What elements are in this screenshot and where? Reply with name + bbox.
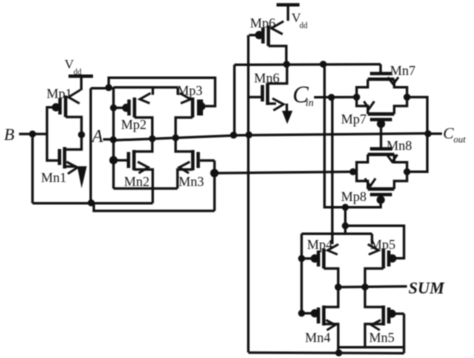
wire Cinv output: [234, 63, 380, 66]
svg-text:Mn8: Mn8: [387, 138, 413, 153]
wire twin2 (Cin) down: [331, 97, 334, 233]
transistor Mn1: [47, 135, 82, 174]
transistor Mn4: [302, 287, 339, 353]
node Mp6 gate blob: [255, 31, 263, 39]
transistor Mp5: [365, 234, 389, 287]
node twin1 corner junction: [342, 204, 349, 211]
wire Cinv left drop: [233, 65, 236, 135]
transistor Mp3: [176, 87, 202, 137]
transistor Mp4: [302, 234, 339, 287]
wire XOR rail (middle): [114, 133, 429, 140]
wire gate line Cin (Mp6-Mn6 down to bottom): [247, 35, 250, 352]
wire W2 step: [91, 203, 214, 211]
svg-text:C: C: [443, 126, 454, 143]
label Mp6: [250, 16, 276, 31]
label Mn6: [254, 71, 280, 86]
wire B down to bottom wire: [31, 134, 34, 203]
node SUM Mp4-Mn4: [335, 284, 342, 291]
label Mn5: [369, 330, 395, 345]
wire TG8 right to Cout: [407, 134, 427, 172]
node rail1 junction: [342, 222, 349, 229]
node rail Mp2-Mn2: [149, 135, 156, 142]
label Mn7: [390, 63, 416, 78]
wire bottom rail Cin: [248, 351, 404, 354]
wire A vertical: [112, 88, 115, 188]
arrow Mn6 source (big): [282, 104, 293, 124]
label Mn4: [305, 330, 331, 345]
transistor Mn7 (pass): [357, 64, 407, 97]
svg-text:Mn4: Mn4: [305, 330, 331, 345]
wire Mp8 gate lead: [345, 195, 380, 208]
node TG7 right: [404, 94, 411, 101]
transistor Mp2: [114, 87, 153, 138]
wire Cout stub: [428, 132, 442, 135]
node B junction: [29, 131, 36, 138]
wire Mp7 gate stem to Mn8: [380, 120, 383, 150]
wire Bnet drop left of A: [89, 88, 92, 203]
wire TG7 right to Cout: [407, 97, 427, 134]
node Mn2 gate on A line: [109, 156, 117, 164]
label Vdd left: [65, 57, 82, 77]
node TG7 left: [353, 94, 360, 101]
node Mp8 gate blob: [377, 196, 385, 204]
wire Vb vertical: [344, 207, 347, 234]
node Cin junction twin2: [328, 94, 335, 101]
svg-text:Mp7: Mp7: [341, 112, 367, 127]
node Mn4 gate blob: [311, 309, 319, 317]
node Mp3 gate blob: [197, 102, 205, 110]
svg-text:Mp2: Mp2: [121, 117, 147, 132]
transistor Mn8 (pass): [357, 149, 407, 172]
transistor Mn3: [176, 138, 215, 189]
input label B: [4, 125, 15, 144]
input label A: [91, 126, 104, 146]
svg-text:Mp3: Mp3: [177, 83, 203, 98]
node inverter2 output: [283, 61, 290, 68]
node Mp5 gate blob: [388, 254, 396, 262]
wire XNOR out to TG8: [214, 172, 353, 173]
node inverter1 output: [78, 131, 85, 138]
label Mn8: [387, 138, 413, 153]
wire rail1 Mp5 gate: [345, 226, 404, 258]
node Mn5 gate blob: [388, 310, 396, 318]
node Mp1 gate: [52, 103, 60, 111]
node Mp4 gate blob: [311, 254, 319, 262]
label Mp7: [341, 112, 367, 127]
node TG8 left: [350, 168, 357, 175]
transistor Mn2: [114, 139, 153, 174]
label Mn2: [124, 174, 150, 189]
node Mn4 gate tap: [298, 310, 305, 317]
wire twin1 (Cinv) down: [325, 64, 346, 207]
label Vdd top: [292, 10, 308, 30]
label Mn1: [41, 170, 67, 185]
svg-text:dd: dd: [74, 68, 82, 77]
wire W2 riser to Mn3 gate: [213, 161, 216, 211]
transistor Mp6: [249, 21, 286, 64]
transistor Mn5: [365, 287, 404, 347]
node Mp2 gate on A line: [110, 104, 117, 111]
label Mp5: [370, 237, 396, 252]
node A junction: [110, 136, 117, 143]
svg-text:out: out: [454, 136, 467, 146]
power Vdd top: [277, 5, 300, 21]
node bottom rail junction: [335, 349, 342, 356]
svg-text:SUM: SUM: [409, 279, 446, 298]
svg-text:A: A: [91, 126, 104, 146]
wire B input: [19, 133, 47, 136]
node Mp4 gate tap: [298, 255, 305, 262]
wire SUM rail: [338, 285, 407, 288]
output label Cout: [443, 126, 466, 146]
node SUM Mp5-Mn5: [362, 284, 369, 291]
wire left gate column: [300, 234, 303, 313]
transistor Mp1: [47, 90, 82, 135]
wire rail2 gates Cin: [302, 233, 372, 236]
output label SUM: [409, 279, 446, 298]
node rail crossing C2: [245, 131, 252, 138]
transistor Mp7 (pass): [357, 97, 407, 120]
node Mp7 gate blob: [377, 120, 385, 128]
node Cout junction: [425, 130, 432, 137]
svg-text:Mn7: Mn7: [390, 63, 416, 78]
svg-text:Mn2: Mn2: [124, 174, 150, 189]
svg-text:Mp8: Mp8: [341, 189, 367, 204]
node bottom B junction: [88, 199, 95, 206]
label Mp1: [47, 86, 73, 101]
wire Cin stub to TG7: [314, 96, 357, 99]
wire A stub: [103, 138, 114, 141]
arrow Mn1 source (big): [77, 166, 87, 188]
wire gate line Mp1-Mn1: [46, 106, 49, 162]
node Cinv twin1 tap: [320, 61, 327, 68]
label Mp4: [307, 237, 333, 252]
label Mn3: [179, 174, 205, 189]
svg-text:Mn1: Mn1: [41, 170, 67, 185]
wire A ring bottom: [114, 187, 178, 190]
node rail crossing C1: [230, 132, 237, 139]
svg-text:dd: dd: [300, 21, 308, 30]
svg-text:B: B: [4, 125, 15, 144]
svg-text:Mn5: Mn5: [369, 330, 395, 345]
label Mp2: [121, 117, 147, 132]
node Mp2 gate blob: [122, 104, 130, 112]
wire Mn5 gate drop: [403, 314, 406, 354]
label Cin: [293, 83, 314, 110]
wire W1 riser to Mn2 source: [151, 170, 154, 203]
transistor Mn6: [248, 64, 287, 110]
power Vdd left: [69, 76, 94, 90]
transistor Mp8 (pass): [357, 172, 407, 195]
node rail Mp3-Mn3: [172, 134, 179, 141]
node Mn3 gate junction: [210, 169, 218, 177]
svg-text:Mn3: Mn3: [179, 174, 205, 189]
svg-text:in: in: [306, 98, 314, 109]
label Mp8: [341, 189, 367, 204]
wire rail outer (to Mp3 gate): [109, 78, 215, 106]
node TG8 right: [404, 168, 411, 175]
wire bottom B net: [33, 202, 153, 205]
label Mp3: [177, 83, 203, 98]
wire rail inner: [91, 86, 178, 89]
wire sources Mn4-Mn5: [338, 346, 404, 349]
node rail junction: [105, 84, 112, 91]
